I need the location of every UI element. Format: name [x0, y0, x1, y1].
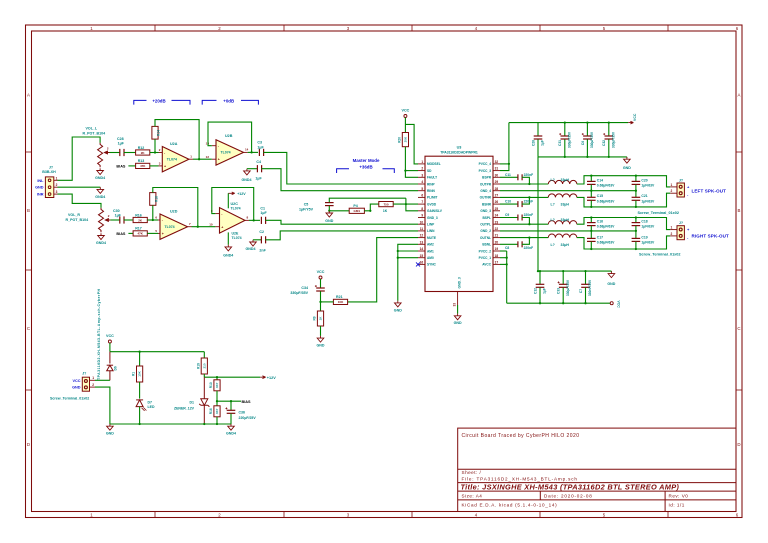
wire GND_2 mid rail right channel	[500, 230, 636, 232]
ground at AVCC cluster	[610, 270, 612, 273]
svg-text:2: 2	[56, 183, 58, 187]
wire R17 to U2D pin3	[147, 232, 158, 234]
svg-text:10: 10	[420, 220, 424, 224]
svg-text:47K: 47K	[137, 232, 143, 236]
wire C34 to node	[320, 291, 322, 302]
svg-text:D6: D6	[114, 366, 118, 370]
svg-text:GND4: GND4	[95, 195, 105, 199]
svg-text:AM2: AM2	[427, 243, 434, 247]
wire R20 to pins 2,3	[405, 147, 418, 178]
svg-text:2: 2	[92, 383, 94, 387]
svg-text:C28: C28	[117, 137, 124, 141]
op-amp U2C TL074	[215, 214, 249, 227]
svg-text:INR: INR	[37, 193, 44, 197]
svg-text:GND: GND	[454, 321, 462, 325]
wire PVCC bottom rail	[507, 302, 611, 304]
svg-text:750: 750	[383, 202, 388, 206]
svg-text:1: 1	[671, 183, 673, 187]
svg-text:FAULT: FAULT	[427, 176, 437, 180]
capacitor C7 330nF/35V	[585, 271, 587, 284]
capacitor C26 1µF	[537, 123, 539, 136]
wire U2D out to U2C pin10	[192, 226, 216, 228]
svg-text:1µF/63V: 1µF/63V	[641, 225, 655, 229]
svg-text:33µH: 33µH	[561, 243, 570, 247]
svg-text:GND4: GND4	[242, 178, 252, 182]
svg-text:VCC: VCC	[402, 109, 410, 113]
annotation bracket +0dB	[202, 100, 258, 104]
svg-text:+20dB: +20dB	[152, 98, 165, 103]
svg-text:TL074: TL074	[221, 151, 231, 155]
svg-text:BIAS: BIAS	[242, 400, 252, 404]
svg-text:C7: C7	[579, 289, 583, 293]
diode D6	[107, 352, 113, 381]
svg-text:BIAS: BIAS	[116, 232, 126, 236]
svg-text:GND4: GND4	[226, 432, 236, 436]
svg-text:C36: C36	[239, 410, 245, 414]
resistor R13	[136, 163, 150, 168]
wire feedback loop U2A	[154, 139, 156, 152]
svg-text:File: TPA3116D2_XH-M543_BTL-Am: File: TPA3116D2_XH-M543_BTL-Amp.sch	[462, 477, 578, 482]
svg-text:+12V: +12V	[237, 192, 246, 196]
svg-text:OUTNR: OUTNR	[480, 196, 492, 200]
svg-text:LINP: LINP	[427, 223, 435, 227]
svg-text:LINN: LINN	[427, 229, 435, 233]
svg-text:+: +	[164, 165, 166, 169]
ground GND4 below VOL_L	[97, 168, 104, 174]
svg-text:Title: JSXINGHE XH-M543 (TPA31: Title: JSXINGHE XH-M543 (TPA3116D2 BTL S…	[461, 483, 680, 492]
wire R13 to U2A pin3	[150, 165, 159, 167]
svg-text:INL: INL	[37, 179, 44, 183]
wire J2 pin1 to D6	[95, 379, 110, 381]
capacitor C8 220nF bootstrap BSNL	[500, 243, 518, 245]
svg-text:PVCC_1: PVCC_1	[479, 256, 492, 260]
wire R22 to GVDD pin7 and GAIN pin8	[393, 203, 418, 205]
wire MUTE pin12 to R21	[348, 238, 418, 302]
svg-text:10: 10	[209, 222, 213, 226]
wire gnd to C4	[247, 168, 258, 170]
wire L3 to top rail right channel	[577, 218, 671, 230]
svg-text:1µF: 1µF	[118, 142, 125, 146]
annotation bracket Master Mode +36dB	[337, 169, 395, 173]
svg-text:3: 3	[56, 190, 58, 194]
svg-text:1µF: 1µF	[260, 211, 267, 215]
svg-text:R16: R16	[209, 408, 213, 414]
wire R20 branch to pin1 MODSEL	[405, 124, 418, 163]
svg-text:BSNL: BSNL	[482, 243, 491, 247]
wire C30 to R16	[124, 219, 133, 221]
svg-text:11: 11	[420, 227, 424, 231]
wire P4 to R22	[364, 204, 378, 211]
wire OUTPL to L3	[500, 223, 548, 225]
svg-text:C12: C12	[533, 288, 537, 294]
svg-text:U2B: U2B	[225, 134, 233, 138]
svg-text:14: 14	[245, 148, 249, 152]
svg-text:B3B-XH: B3B-XH	[42, 170, 56, 174]
capacitor C33 330µF/35V	[562, 271, 564, 284]
svg-text:GVDD: GVDD	[427, 202, 437, 206]
svg-text:15: 15	[420, 254, 424, 258]
svg-text:P4: P4	[353, 204, 357, 208]
resistor R1	[139, 352, 141, 366]
resistor R9	[317, 311, 323, 326]
svg-text:1µF/Y5V: 1µF/Y5V	[299, 207, 314, 211]
capacitor C36 220µF/25V	[230, 401, 232, 410]
capacitor C4 1µF	[257, 165, 261, 172]
wire BIAS to R13	[128, 165, 135, 167]
svg-text:1K: 1K	[383, 209, 388, 213]
svg-text:GND: GND	[607, 282, 615, 286]
svg-text:L?: L?	[551, 218, 555, 222]
wire U2C out junction to C1	[249, 219, 260, 221]
svg-text:30: 30	[495, 173, 499, 177]
svg-text:PVCC_2: PVCC_2	[479, 249, 492, 253]
svg-text:R9: R9	[313, 316, 317, 320]
capacitor C21 1µF/63V	[635, 191, 637, 197]
svg-text:J?: J?	[679, 221, 683, 225]
terminal J right speaker	[670, 230, 677, 236]
svg-text:GND4: GND4	[223, 253, 233, 257]
svg-text:J?: J?	[679, 178, 683, 182]
capacitor C10 220nF bootstrap BSNR	[500, 203, 518, 205]
wire C5 top to pin6 row	[329, 198, 406, 202]
svg-text:VCC: VCC	[106, 334, 114, 338]
svg-text:C30: C30	[113, 209, 120, 213]
svg-text:C11: C11	[505, 173, 511, 177]
svg-text:Screw_Terminal_01x02: Screw_Terminal_01x02	[639, 252, 681, 256]
wire L4 to bottom rail right channel	[577, 236, 671, 249]
svg-text:PVCC_3: PVCC_3	[479, 169, 492, 173]
svg-text:2: 2	[671, 189, 673, 193]
svg-text:210: 210	[202, 363, 206, 368]
power VCC at rail end	[610, 302, 613, 305]
svg-text:RIGHT SPK-OUT: RIGHT SPK-OUT	[692, 233, 730, 238]
wire L1 to top rail	[577, 176, 671, 187]
svg-text:R21: R21	[336, 295, 343, 299]
wire C4 to U3 pin5 RINN	[261, 169, 418, 191]
svg-text:Sheet: /: Sheet: /	[462, 470, 482, 475]
svg-text:33µH: 33µH	[561, 178, 570, 182]
svg-text:GND: GND	[317, 344, 325, 348]
wire PVCC pins 31,32 vertical	[500, 163, 509, 165]
svg-text:GND: GND	[106, 432, 114, 436]
capacitor C6 330µF/35V	[586, 123, 588, 136]
svg-text:C32: C32	[602, 140, 606, 146]
wire R19 to +12V node	[203, 374, 205, 377]
wire C2 to U3 pin11 LINN	[265, 231, 418, 240]
wire OUTPR to L1	[500, 183, 548, 185]
svg-text:PVCC_4: PVCC_4	[479, 162, 492, 166]
svg-text:27: 27	[495, 194, 499, 198]
wire VCC decoupling rail	[509, 122, 628, 124]
power VCC above R20	[404, 115, 407, 118]
svg-text:C: C	[27, 326, 30, 331]
svg-text:14: 14	[420, 247, 424, 251]
svg-text:4: 4	[421, 180, 423, 184]
wire C3 to U3 pin4 RINP	[263, 152, 418, 184]
svg-text:1µF: 1µF	[257, 145, 264, 149]
svg-text:D: D	[737, 442, 740, 447]
svg-text:U2C: U2C	[231, 202, 239, 206]
svg-text:25: 25	[495, 207, 499, 211]
svg-text:PLIMIT: PLIMIT	[427, 196, 437, 200]
svg-text:10K: 10K	[338, 300, 344, 304]
capacitor C11 220nF bootstrap BSPR	[500, 176, 518, 178]
capacitor C32 330µF/35V	[608, 123, 610, 136]
svg-text:2: 2	[671, 232, 673, 236]
svg-text:C31: C31	[558, 140, 562, 146]
resistor P4	[349, 208, 364, 213]
resistor R14 feedback of U2A	[152, 126, 158, 139]
svg-text:C6: C6	[581, 141, 585, 145]
svg-text:0.68µF/63V: 0.68µF/63V	[597, 241, 615, 245]
svg-text:TL074: TL074	[232, 236, 242, 240]
svg-text:L?: L?	[551, 243, 555, 247]
svg-text:+12V: +12V	[267, 376, 276, 380]
svg-text:B: B	[27, 208, 30, 213]
svg-text:330µF/35V: 330µF/35V	[290, 291, 308, 295]
svg-text:R19: R19	[196, 363, 200, 369]
svg-text:C10: C10	[505, 200, 511, 204]
svg-text:Id: 1/1: Id: 1/1	[669, 503, 685, 508]
wire U2B out junction	[248, 151, 258, 153]
terminal J left speaker	[670, 187, 677, 193]
resistor R16 lower divider	[216, 401, 218, 406]
svg-text:D1: D1	[190, 400, 195, 404]
svg-text:1µF/63V: 1µF/63V	[641, 184, 655, 188]
wire AVCC PVCC pins to vertical	[500, 250, 507, 252]
wire R16 to U2D with feedback junction	[147, 219, 158, 221]
svg-text:A: A	[738, 93, 741, 98]
capacitor C31 330µF/35V	[564, 123, 566, 136]
U3 right pins 32-17	[493, 164, 500, 265]
svg-text:TPA3116D2-XH-M543-BTL-Amp-sch-: TPA3116D2-XH-M543-BTL-Amp-sch-CyberPH	[97, 289, 101, 380]
svg-text:GND_4: GND_4	[480, 189, 491, 193]
capacitor C14 0.68µF/63V	[590, 176, 592, 181]
svg-text:AM0: AM0	[427, 256, 434, 260]
wire power bottom rail	[110, 423, 231, 425]
power VCC input	[108, 340, 111, 343]
svg-text:7: 7	[421, 200, 423, 204]
svg-text:C34: C34	[301, 286, 308, 290]
svg-text:8: 8	[421, 207, 423, 211]
svg-text:R10: R10	[209, 382, 213, 388]
svg-text:C8: C8	[505, 246, 509, 250]
svg-text:Screw_Terminal_01x02: Screw_Terminal_01x02	[50, 397, 89, 401]
svg-text:R12: R12	[138, 146, 145, 150]
inductor L3 33µH	[548, 221, 577, 225]
svg-text:BIAS: BIAS	[116, 164, 126, 168]
svg-text:BSPL: BSPL	[482, 216, 491, 220]
svg-text:D7: D7	[148, 400, 153, 404]
svg-text:R14: R14	[157, 130, 161, 136]
U3 pin 33 pad GND	[457, 292, 459, 306]
annotation bracket +20dB	[134, 100, 190, 104]
svg-text:16: 16	[420, 261, 424, 265]
svg-text:1µF/63V: 1µF/63V	[641, 241, 655, 245]
wire U2C pin11 to ground	[227, 232, 229, 244]
wire L2 to bottom rail	[577, 193, 671, 207]
svg-text:+: +	[162, 232, 164, 236]
svg-text:6: 6	[421, 194, 423, 198]
capacitor C18 1µF/63V	[635, 218, 637, 223]
power VCC above C34	[319, 276, 322, 279]
svg-text:SYNC: SYNC	[427, 263, 437, 267]
svg-text:R20: R20	[397, 137, 401, 143]
svg-text:26: 26	[495, 200, 499, 204]
svg-text:1: 1	[671, 226, 673, 230]
svg-text:28: 28	[495, 187, 499, 191]
wire GND_4 mid rail	[500, 190, 636, 192]
svg-text:U2A: U2A	[170, 142, 178, 146]
svg-text:KiCad E.D.A. kicad (5.1.4-0-1: KiCad E.D.A. kicad (5.1.4-0-10_14)	[462, 503, 558, 508]
wire J7 pin1 to VOL_L top	[58, 137, 101, 180]
wire power top rail	[110, 351, 204, 353]
svg-text:C1: C1	[260, 206, 265, 210]
wire GND rail down to AVCC cluster	[537, 157, 539, 271]
svg-text:C14: C14	[597, 178, 603, 182]
svg-text:U2D: U2D	[170, 210, 178, 214]
svg-text:13: 13	[420, 240, 424, 244]
svg-text:GND_2: GND_2	[480, 229, 491, 233]
svg-text:GND: GND	[394, 308, 402, 312]
svg-text:330µF/35V: 330µF/35V	[611, 131, 615, 148]
capacitor C1 1µF	[261, 217, 265, 224]
potentiometer VOL_L R_POT_B104	[98, 143, 103, 167]
svg-text:1µF: 1µF	[255, 177, 262, 181]
resistor R22	[379, 202, 393, 207]
svg-text:TL074: TL074	[165, 225, 175, 229]
capacitor C9 220nF bootstrap BSPL	[500, 217, 518, 219]
wire C28 to R12	[124, 152, 136, 154]
svg-text:3: 3	[421, 173, 423, 177]
wire to P4	[329, 210, 349, 212]
wire BIAS node	[217, 400, 241, 402]
no-connect x at pin16 SYNC	[416, 262, 420, 266]
svg-text:2: 2	[421, 167, 423, 171]
wire R12 to U2A pin2 with feedback junction	[150, 152, 159, 154]
svg-text:GND: GND	[72, 386, 81, 390]
svg-text:VCC: VCC	[633, 113, 637, 121]
svg-text:0.68µF/63V: 0.68µF/63V	[597, 225, 615, 229]
svg-text:L?: L?	[551, 178, 555, 182]
svg-text:47K: 47K	[140, 164, 146, 168]
wire J2 pin2 to ground rail	[95, 387, 110, 424]
svg-text:1µF: 1µF	[541, 140, 545, 146]
resistor R16	[133, 217, 147, 222]
svg-text:1µF: 1µF	[115, 213, 122, 217]
svg-text:23: 23	[495, 220, 499, 224]
svg-text:20K: 20K	[404, 136, 408, 142]
resistor R21	[333, 299, 347, 304]
svg-text:VOL_R: VOL_R	[68, 213, 80, 217]
wire C1 to U3 pin10 LINP	[265, 220, 418, 224]
svg-text:GND: GND	[623, 166, 631, 170]
wire J7 pin3 to VOL_R top	[58, 194, 102, 208]
wire R1 to LED D7	[139, 382, 141, 399]
resistor R17	[133, 231, 147, 236]
svg-text:C19: C19	[641, 235, 647, 239]
svg-text:C20: C20	[641, 178, 647, 182]
wire GND top rail	[538, 270, 611, 272]
svg-text:D: D	[27, 442, 30, 447]
capacitor C19 1µF/63V	[635, 231, 637, 238]
svg-text:MUTE: MUTE	[427, 236, 436, 240]
svg-text:TL074: TL074	[167, 157, 177, 161]
svg-text:TL074: TL074	[231, 207, 241, 211]
svg-text:29: 29	[495, 180, 499, 184]
svg-text:J?: J?	[49, 165, 53, 169]
svg-text:+: +	[218, 158, 220, 162]
svg-text:C18: C18	[641, 219, 647, 223]
capacitor C16 0.68µF/63V	[590, 218, 592, 223]
svg-text:+0dB: +0dB	[223, 98, 234, 103]
svg-text:L?: L?	[551, 203, 555, 207]
svg-text:C33: C33	[557, 288, 561, 294]
wire +12V rail	[204, 376, 260, 378]
op-amp U2D TL074	[158, 220, 192, 233]
svg-text:12: 12	[206, 155, 210, 159]
wire node to R9	[320, 302, 322, 311]
IC U3 TPA3116D2DADPWPR1 body	[425, 156, 493, 291]
capacitor C17 0.68µF/63V	[590, 231, 592, 238]
svg-text:R17: R17	[135, 227, 142, 231]
wire U2A out to U2B pin12	[193, 158, 212, 160]
capacitor C2	[261, 236, 265, 243]
potentiometer VOL_R R_POT_B104	[99, 208, 104, 232]
svg-text:10K: 10K	[138, 370, 142, 376]
svg-text:C9: C9	[505, 213, 509, 217]
wire VOL_L wiper to C28	[110, 152, 121, 154]
svg-text:20: 20	[495, 240, 499, 244]
svg-text:RINP: RINP	[427, 182, 435, 186]
svg-text:GND4: GND4	[246, 247, 256, 251]
resistor R19	[203, 352, 205, 358]
svg-text:R_POT_B104: R_POT_B104	[83, 131, 106, 135]
svg-text:5: 5	[421, 187, 423, 191]
wire D7 to ground rail	[139, 407, 141, 424]
svg-text:Circuit Board Traced by CyberP: Circuit Board Traced by CyberPH HILO 202…	[462, 433, 580, 439]
svg-text:C16: C16	[597, 219, 603, 223]
ground below C5	[326, 211, 333, 217]
connector J2 power screw terminal	[82, 377, 89, 391]
svg-text:R1: R1	[132, 372, 136, 376]
svg-text:B: B	[738, 208, 741, 213]
svg-text:VCC: VCC	[617, 301, 621, 309]
wire feedback loop U2D	[152, 205, 154, 220]
ground GND4 below VOL_R	[98, 233, 105, 239]
svg-text:GND4: GND4	[96, 241, 106, 245]
svg-text:21: 21	[495, 234, 499, 238]
svg-text:GM1: GM1	[354, 209, 361, 213]
wire VOL_R wiper to C30	[110, 219, 120, 221]
svg-text:Rev: V0: Rev: V0	[669, 494, 689, 499]
svg-text:VCC: VCC	[72, 379, 80, 383]
svg-text:24: 24	[495, 214, 499, 218]
svg-text:C21: C21	[641, 194, 647, 198]
svg-text:J?: J?	[82, 372, 86, 376]
svg-text:OUTNL: OUTNL	[480, 236, 491, 240]
op-amp U2A TL074	[159, 153, 194, 166]
svg-text:Date: 2020-02-08: Date: 2020-02-08	[544, 494, 593, 499]
svg-text:22: 22	[495, 227, 499, 231]
svg-text:BSNR: BSNR	[482, 202, 492, 206]
svg-text:1µF: 1µF	[543, 288, 547, 294]
svg-text:GND_3: GND_3	[427, 216, 438, 220]
svg-text:33: 33	[452, 303, 456, 307]
capacitor C3 1µF	[259, 149, 263, 156]
resistor R10	[216, 377, 218, 380]
inductor L1 33µH	[548, 180, 577, 184]
